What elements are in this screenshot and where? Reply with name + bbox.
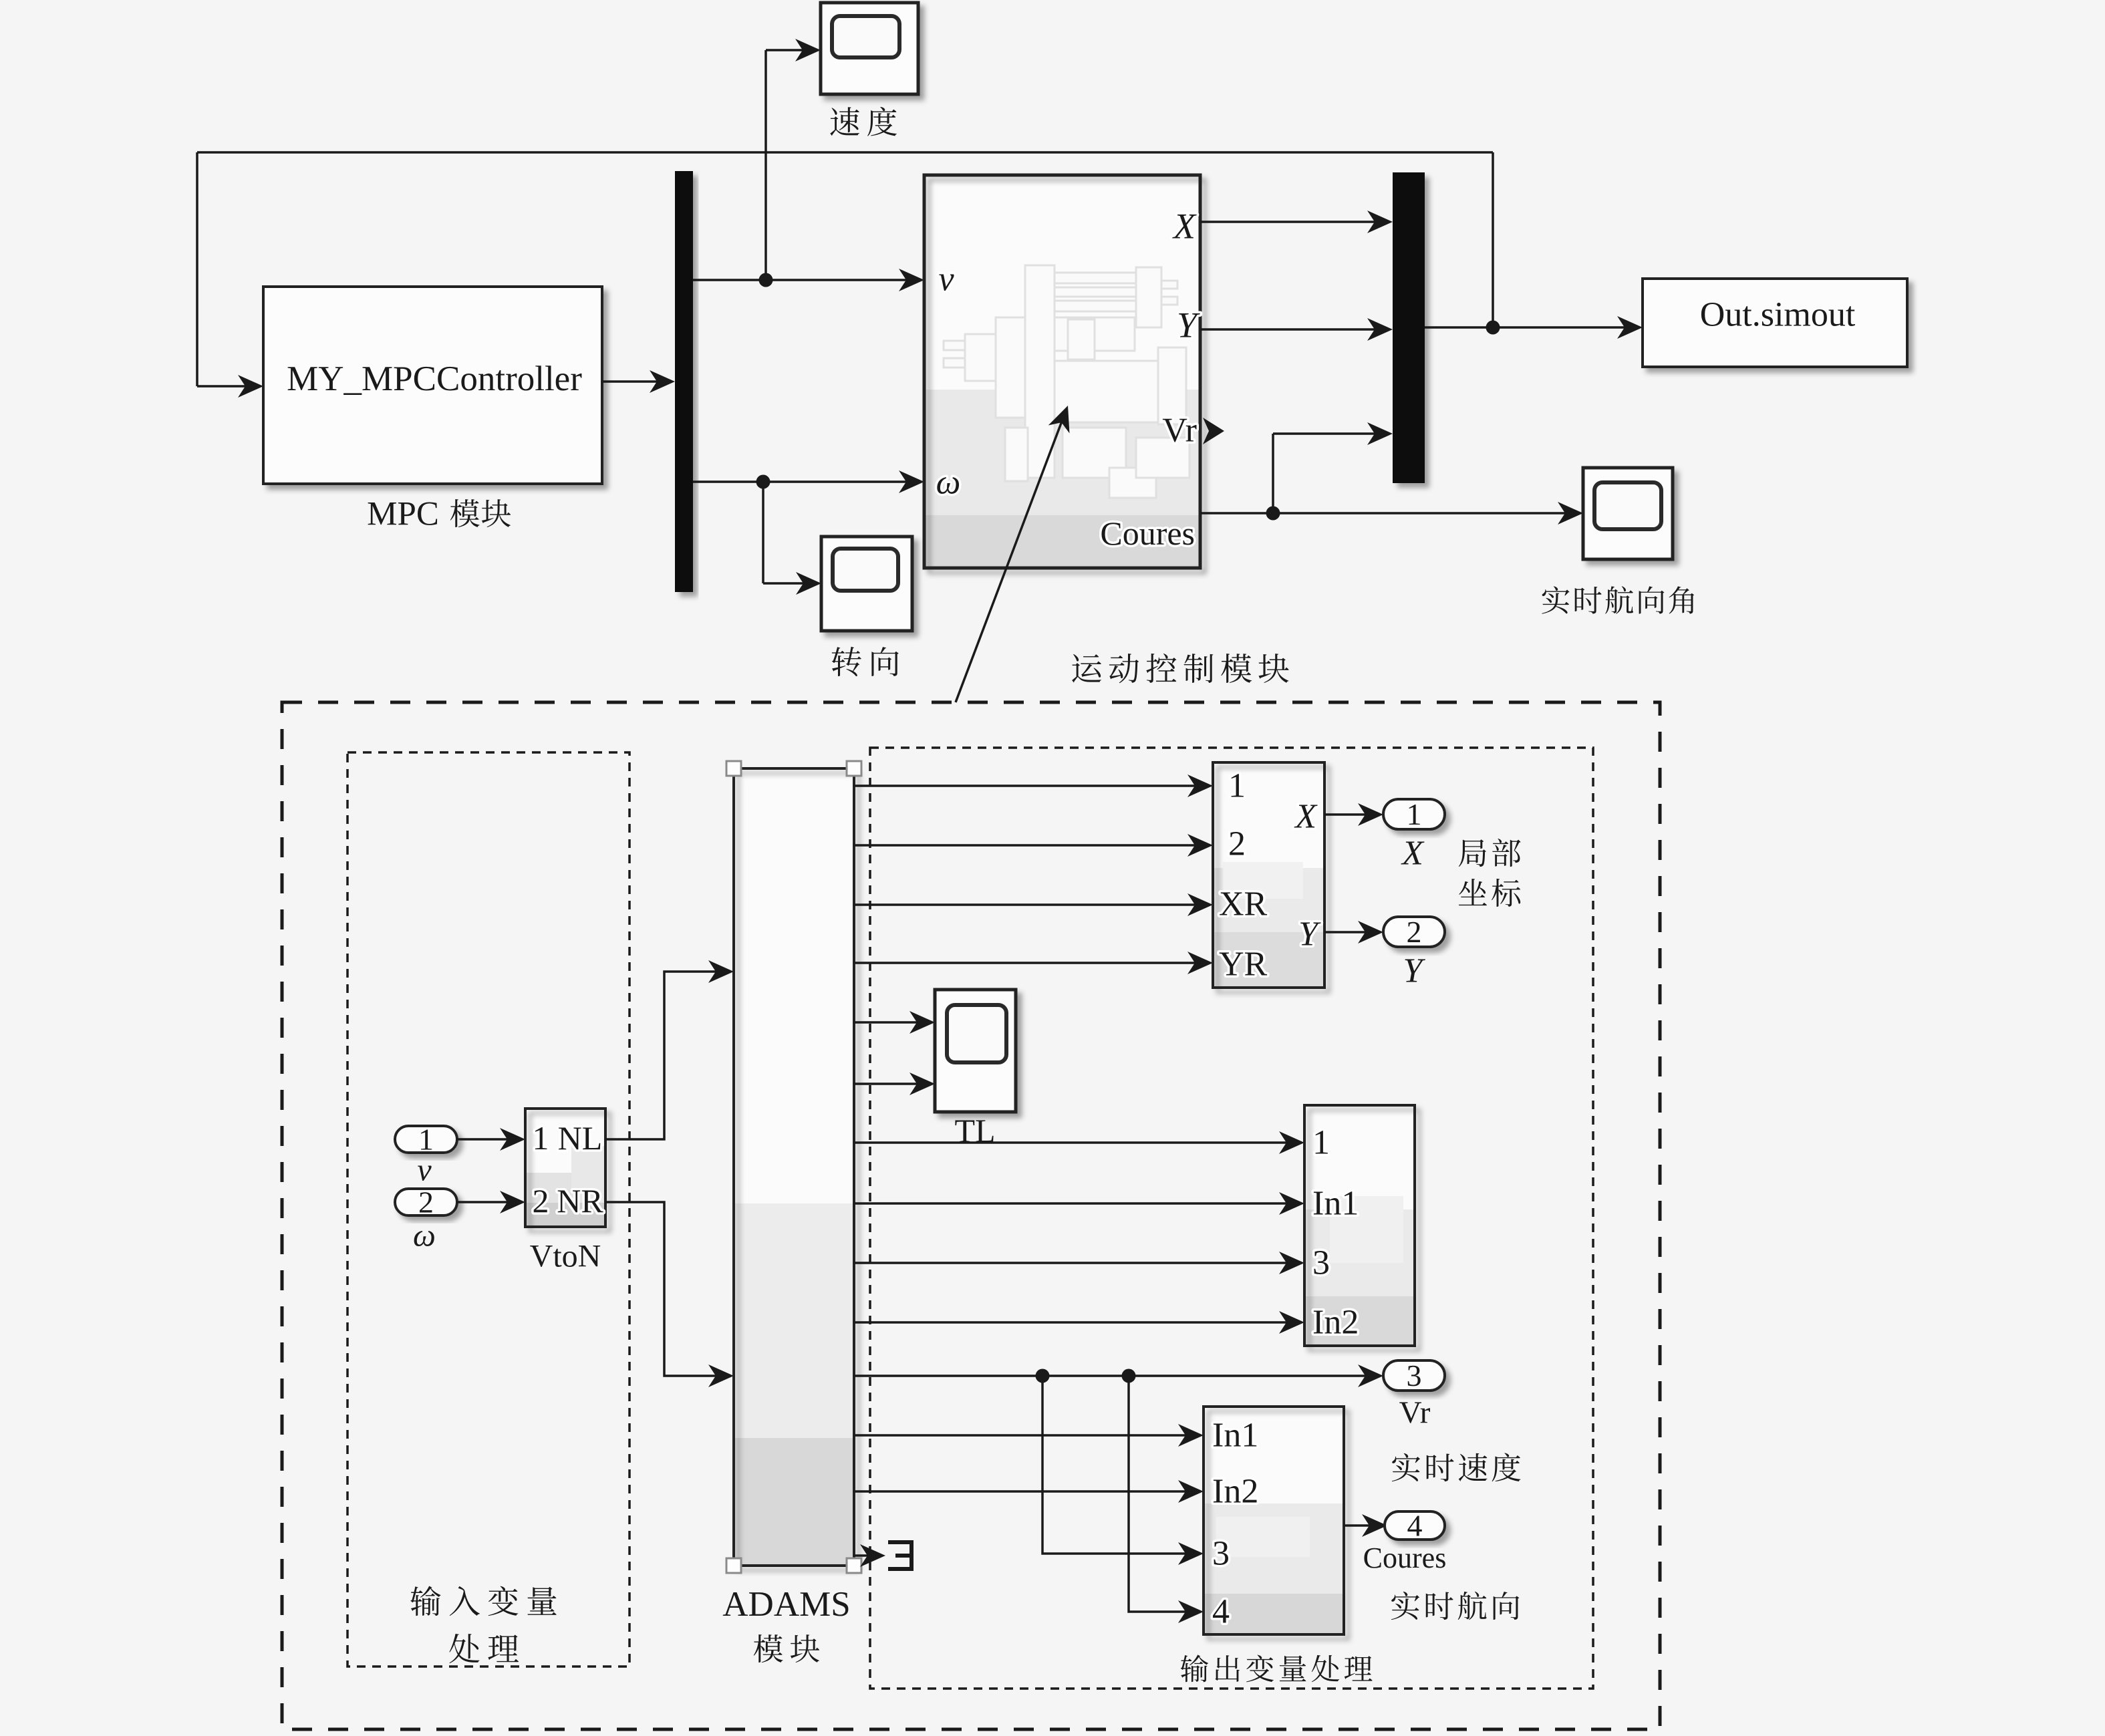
svg-text:TL: TL <box>954 1112 995 1149</box>
svg-text:v: v <box>938 261 954 299</box>
svg-text:v: v <box>417 1152 432 1187</box>
svg-text:X: X <box>1401 835 1425 873</box>
svg-text:1: 1 <box>1407 797 1422 831</box>
svg-text:MY_MPCController: MY_MPCController <box>287 359 582 398</box>
svg-text:NL: NL <box>558 1119 603 1157</box>
svg-text:Vr: Vr <box>1399 1395 1431 1430</box>
svg-text:NR: NR <box>557 1182 603 1219</box>
svg-text:Coures: Coures <box>1100 515 1195 552</box>
svg-text:ADAMS: ADAMS <box>722 1585 850 1624</box>
svg-text:Coures: Coures <box>1363 1542 1447 1574</box>
svg-text:ω: ω <box>936 464 961 502</box>
svg-text:XR: XR <box>1219 885 1268 923</box>
svg-text:In1: In1 <box>1212 1417 1258 1455</box>
svg-text:X: X <box>1294 798 1318 836</box>
svg-text:1: 1 <box>533 1119 549 1157</box>
svg-text:3: 3 <box>1312 1244 1330 1282</box>
svg-text:2: 2 <box>418 1185 434 1219</box>
svg-text:YR: YR <box>1219 946 1268 984</box>
svg-text:In1: In1 <box>1312 1185 1359 1223</box>
svg-text:VtoN: VtoN <box>530 1238 601 1274</box>
svg-text:In2: In2 <box>1212 1473 1258 1511</box>
svg-text:In2: In2 <box>1312 1304 1359 1342</box>
svg-text:1: 1 <box>1228 767 1246 805</box>
svg-text:2: 2 <box>1407 915 1422 949</box>
svg-text:3: 3 <box>1212 1535 1230 1573</box>
svg-text:3: 3 <box>1407 1358 1422 1393</box>
svg-text:1: 1 <box>1312 1124 1330 1162</box>
svg-text:ω: ω <box>413 1217 436 1253</box>
svg-text:MPC: MPC <box>367 495 439 533</box>
svg-text:1: 1 <box>418 1123 434 1157</box>
svg-text:Out.simout: Out.simout <box>1700 296 1856 334</box>
svg-text:Vr: Vr <box>1162 412 1197 450</box>
svg-text:Y: Y <box>1298 915 1321 954</box>
svg-text:4: 4 <box>1407 1509 1423 1543</box>
svg-text:Y: Y <box>1177 305 1200 345</box>
svg-text:2: 2 <box>1228 825 1246 863</box>
svg-text:X: X <box>1172 206 1197 246</box>
svg-text:4: 4 <box>1212 1593 1230 1631</box>
svg-text:2: 2 <box>533 1182 549 1219</box>
svg-text:Y: Y <box>1403 952 1426 990</box>
